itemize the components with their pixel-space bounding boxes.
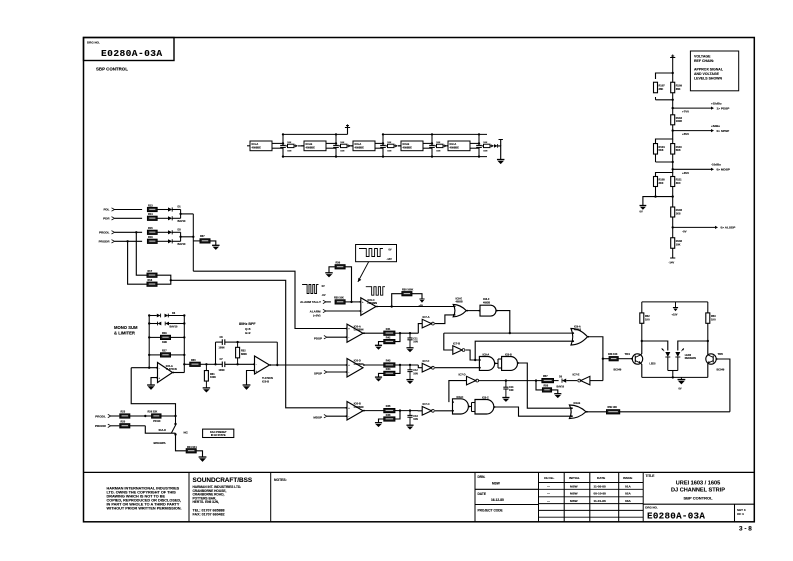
resistor R13 10K bbox=[147, 207, 157, 211]
wire BPF input node up bbox=[206, 363, 215, 365]
node branch PRODL bbox=[135, 231, 137, 233]
output diode end of chain bbox=[493, 145, 495, 147]
comparator IC6-D LM339N bbox=[347, 359, 363, 378]
drawing number box top-left bbox=[84, 38, 175, 61]
svg-text:11-01-86: 11-01-86 bbox=[594, 499, 606, 503]
resistor R38 100K pull-up bbox=[392, 294, 402, 307]
wire monostable stage pins bbox=[375, 142, 383, 144]
wire non-inverting input IC5-B to ground bbox=[247, 371, 255, 386]
svg-text:MSW: MSW bbox=[492, 481, 500, 485]
LED5 bbox=[665, 352, 670, 357]
resistor R26 22K bbox=[145, 415, 151, 417]
IC5-A pin nodes bbox=[156, 367, 158, 369]
svg-text:& LIMITER: & LIMITER bbox=[114, 331, 135, 336]
+15V supply feed at monostable rail bbox=[347, 128, 349, 135]
wire limiter control from IC5-A input bbox=[131, 368, 175, 416]
wire OR1 output to TR4 drive bbox=[588, 337, 603, 381]
timing resistor R62 10K bbox=[341, 144, 348, 147]
wire latch top interconnect bbox=[466, 310, 480, 312]
supply stub end of chain bbox=[500, 140, 502, 146]
diode D7 pair reversed bbox=[149, 323, 157, 325]
wire LED anode right bbox=[678, 341, 708, 351]
svg-text:S1A-D: S1A-D bbox=[159, 429, 167, 432]
resistor R46 shunt bbox=[384, 417, 395, 421]
monostable chain bottom rail bbox=[283, 156, 487, 158]
svg-text:05-10-85: 05-10-85 bbox=[594, 492, 607, 496]
svg-text:LM339N: LM339N bbox=[354, 406, 364, 409]
resistor R53 1K0 bbox=[707, 302, 709, 313]
resistor R15 10K bbox=[147, 230, 157, 234]
resistor R110 5K6 bbox=[672, 139, 674, 144]
svg-text:IN HI STATE: IN HI STATE bbox=[211, 433, 226, 437]
ground R44 bbox=[375, 376, 382, 378]
timing resistor R63 10K bbox=[388, 144, 395, 147]
op-amp IC5-A TL072CN bbox=[158, 363, 173, 383]
svg-text:+5V0: +5V0 bbox=[682, 132, 689, 136]
resistor R25 10K bbox=[120, 424, 130, 428]
svg-text:FAX: 01707 660482: FAX: 01707 660482 bbox=[193, 513, 225, 517]
comparator IC6-B LM339N bbox=[347, 402, 363, 421]
svg-text:4098BE: 4098BE bbox=[355, 146, 365, 150]
svg-text:IC7-E: IC7-E bbox=[573, 373, 580, 377]
gate IC8-E nand latch top bbox=[453, 305, 466, 317]
svg-text:R25: R25 bbox=[121, 420, 126, 423]
inverter IC7-F bbox=[418, 365, 422, 368]
resistor R52 1K0 bbox=[641, 323, 643, 341]
svg-text:R28: R28 bbox=[162, 332, 167, 335]
ground R58 bbox=[554, 393, 561, 395]
node tap PDSP bbox=[672, 99, 674, 101]
svg-text:BC549: BC549 bbox=[614, 369, 622, 372]
diode D5 BAV10 bbox=[562, 379, 566, 383]
svg-text:TR4: TR4 bbox=[625, 352, 631, 356]
wire TR5 base loop bbox=[716, 359, 730, 412]
svg-text:DATE: DATE bbox=[478, 492, 486, 496]
ground R37 bbox=[212, 244, 219, 246]
wire junction to ground stub bbox=[656, 196, 673, 198]
svg-text:APPROX SIGNAL: APPROX SIGNAL bbox=[694, 68, 724, 72]
svg-text:IC7-C: IC7-C bbox=[423, 402, 430, 406]
ground R42 bbox=[375, 344, 382, 346]
svg-text:4098BE: 4098BE bbox=[450, 146, 460, 150]
svg-text:3 - 8: 3 - 8 bbox=[739, 526, 752, 533]
svg-text:MDSP: MDSP bbox=[313, 416, 322, 420]
resistor R59 10K bbox=[607, 410, 620, 414]
inverter IC7-A bbox=[418, 324, 422, 334]
resistor R24 1K1 bbox=[186, 449, 196, 453]
svg-text:LEVELS SHOWN: LEVELS SHOWN bbox=[694, 76, 722, 80]
svg-text:BC549: BC549 bbox=[717, 369, 725, 372]
svg-text:+5V: +5V bbox=[419, 304, 424, 307]
wire LED cathodes bbox=[667, 358, 669, 371]
svg-text:PDL: PDL bbox=[104, 208, 110, 212]
svg-text:R37: R37 bbox=[200, 235, 205, 238]
wire latch bottom cross coupling bbox=[468, 406, 471, 408]
svg-text:R44: R44 bbox=[386, 368, 391, 371]
svg-text:+15dBu: +15dBu bbox=[711, 102, 722, 106]
wire branch loop R105 bbox=[656, 169, 673, 176]
resistor R58 100K bbox=[536, 381, 542, 390]
svg-text:+7V0: +7V0 bbox=[682, 110, 689, 114]
+5V supply R38 bbox=[419, 298, 424, 300]
timing capacitor C32 10N bbox=[335, 134, 337, 145]
wire BPF top row bbox=[238, 341, 278, 343]
inverter IC7-D bbox=[467, 376, 476, 385]
svg-text:R48 10K: R48 10K bbox=[608, 353, 618, 356]
svg-text:-10dBu: -10dBu bbox=[711, 163, 721, 167]
wire TR5 emitter bbox=[707, 363, 709, 377]
inverter IC7-E bbox=[581, 376, 590, 385]
svg-text:100N: 100N bbox=[219, 347, 225, 350]
svg-text:PRODL: PRODL bbox=[95, 414, 106, 418]
svg-text:10K: 10K bbox=[483, 142, 487, 144]
svg-text:TL072CN: TL072CN bbox=[166, 368, 177, 371]
top rail LED supply bbox=[642, 301, 708, 303]
wire diode OR bus rows 1-2 bbox=[180, 210, 182, 219]
svg-text:UREI 1603 / 1605: UREI 1603 / 1605 bbox=[676, 481, 720, 487]
svg-text:LM339N: LM339N bbox=[354, 329, 364, 332]
svg-text:10N: 10N bbox=[509, 389, 514, 392]
resistor R14 10K bbox=[147, 216, 157, 220]
svg-text:80Hz BPF: 80Hz BPF bbox=[239, 322, 256, 326]
wire monostable stage pins bbox=[423, 142, 432, 144]
wire latch output bus to OR1 bbox=[444, 332, 574, 334]
svg-text:0V: 0V bbox=[679, 388, 682, 391]
resistor R45 series bbox=[384, 409, 395, 413]
wire latch top output bbox=[496, 311, 510, 334]
wire detect line to IC6-B input bbox=[171, 280, 347, 408]
wire TR4 collector bbox=[641, 341, 642, 355]
svg-text:0> ALSDP: 0> ALSDP bbox=[721, 226, 736, 230]
svg-text:R14: R14 bbox=[148, 213, 153, 216]
ground LED circuit bbox=[680, 377, 682, 379]
TR5 base node bbox=[716, 358, 718, 360]
ground R31 bbox=[203, 387, 210, 389]
wire IC7-C output to IC8-D bbox=[435, 410, 453, 412]
svg-text:E0280A-03A: E0280A-03A bbox=[647, 510, 705, 521]
resistor R27 10K feedback bbox=[149, 354, 160, 356]
svg-text:-: - bbox=[256, 364, 257, 367]
resistor R42 shunt bbox=[384, 340, 395, 344]
svg-text:E0280A-03A: E0280A-03A bbox=[101, 48, 163, 59]
svg-text:IC2-A: IC2-A bbox=[450, 142, 457, 146]
svg-text:-0V: -0V bbox=[682, 229, 687, 233]
wire monostable stage pins bbox=[470, 142, 479, 144]
wire tap to MDSP bbox=[673, 168, 711, 170]
svg-text:R15: R15 bbox=[148, 227, 153, 230]
wire peak-detect node vertical bbox=[192, 214, 194, 271]
timing capacitor C33 10N bbox=[382, 134, 384, 145]
svg-text:10K: 10K bbox=[387, 142, 391, 144]
monostable IC3-A bbox=[353, 141, 375, 151]
wire switch to R24 bbox=[176, 437, 186, 451]
svg-text:R17: R17 bbox=[148, 270, 153, 273]
revision table bbox=[539, 482, 644, 484]
wire IC5-A output to rail bbox=[173, 372, 185, 374]
wire R44 to node bbox=[395, 365, 400, 373]
latch mid pin nodes bbox=[479, 359, 481, 361]
inverter IC7-C bbox=[418, 410, 422, 412]
resistor R111 3K0 bbox=[672, 173, 674, 177]
ground C14 bbox=[502, 397, 509, 399]
resistor R43 series bbox=[384, 363, 395, 367]
node branch PRODR bbox=[126, 240, 128, 242]
svg-text:BAV10: BAV10 bbox=[178, 220, 186, 223]
or gate IC9-A bbox=[571, 329, 588, 346]
resistor R41 series bbox=[384, 331, 395, 335]
svg-text:PRODL: PRODL bbox=[99, 231, 110, 235]
svg-text:HERTS. EN6 3JN,: HERTS. EN6 3JN, bbox=[193, 500, 220, 504]
feedback rail right bbox=[183, 316, 185, 373]
svg-text:R36: R36 bbox=[336, 261, 341, 264]
svg-text:10K: 10K bbox=[436, 142, 440, 144]
IC5-B pin nodes bbox=[253, 363, 255, 365]
svg-text:IC8-A: IC8-A bbox=[483, 352, 490, 356]
svg-text:4098BE: 4098BE bbox=[306, 146, 316, 150]
svg-text:IC7-B: IC7-B bbox=[453, 342, 460, 346]
wire BPF feedback bbox=[276, 342, 278, 365]
wire monostable stage pins bbox=[326, 142, 336, 144]
svg-text:-14V: -14V bbox=[669, 261, 675, 265]
svg-text:10N: 10N bbox=[436, 150, 440, 152]
wire IC7-A output to latch bbox=[435, 315, 456, 324]
ground IC5-B bbox=[243, 384, 251, 386]
wire IC6-C output bbox=[376, 306, 456, 308]
wire monostable stage pins bbox=[272, 142, 283, 144]
resistor R104 5K6 bbox=[654, 144, 658, 155]
svg-text:R41: R41 bbox=[386, 328, 391, 331]
timing capacitor C34 10N bbox=[431, 134, 433, 145]
wire input PRODR bbox=[115, 240, 143, 242]
svg-text:5K6: 5K6 bbox=[676, 148, 681, 152]
+15V supply top of chain bbox=[670, 57, 675, 59]
wire monostable interconnects bbox=[298, 145, 304, 147]
wire TR5 collector bbox=[707, 341, 709, 355]
svg-text:ISSUE: ISSUE bbox=[623, 476, 632, 480]
wire to inverter IC7-B bbox=[444, 333, 453, 350]
svg-text:LM339N: LM339N bbox=[368, 302, 378, 305]
svg-text:DRN.: DRN. bbox=[478, 475, 486, 479]
svg-text:IC8-C: IC8-C bbox=[482, 396, 489, 400]
node tap SPSP bbox=[672, 129, 674, 131]
svg-text:10K: 10K bbox=[340, 142, 344, 144]
svg-text:1K0: 1K0 bbox=[711, 319, 716, 322]
node IC6-A filter bbox=[399, 332, 401, 334]
node chain top junction bbox=[672, 72, 674, 74]
svg-text:SOUNDCRAFT/BSS: SOUNDCRAFT/BSS bbox=[193, 477, 253, 484]
svg-text:R43: R43 bbox=[386, 360, 391, 363]
svg-text:-: - bbox=[362, 310, 363, 313]
svg-text:3K0: 3K0 bbox=[676, 181, 681, 185]
wire input PRODL bbox=[115, 231, 143, 233]
svg-text:100N: 100N bbox=[219, 369, 225, 372]
svg-text:R45: R45 bbox=[386, 405, 391, 408]
svg-text:R16: R16 bbox=[148, 236, 153, 239]
wire BPF output to IC6-D input bbox=[277, 364, 347, 366]
TR4 base node bbox=[631, 358, 633, 360]
svg-text:R58: R58 bbox=[544, 385, 549, 388]
svg-text:SBP CONTROL: SBP CONTROL bbox=[683, 496, 713, 501]
svg-text:BPA/HPA: BPA/HPA bbox=[154, 441, 166, 445]
capacitor C13 filter bbox=[409, 411, 411, 416]
ground R36 bbox=[325, 272, 332, 274]
resistor R28 1M0 feedback bbox=[149, 336, 160, 338]
wire input PDL bbox=[115, 209, 143, 211]
node tap ALSDP bbox=[672, 226, 674, 228]
svg-text:(+5V): (+5V) bbox=[313, 313, 320, 317]
wire detect line to IC6-A input bbox=[193, 271, 347, 328]
gate IC8-F nand latch top bbox=[480, 305, 496, 316]
svg-text:R59 10K: R59 10K bbox=[608, 406, 618, 409]
drawn-by cell bbox=[475, 488, 539, 490]
wire branch PRODL to lower resistor bbox=[136, 232, 147, 275]
svg-text:IC3-B: IC3-B bbox=[403, 142, 410, 146]
resistor R105 3K0 bbox=[654, 177, 658, 187]
gate IC8-D nand latch bottom bbox=[453, 399, 469, 414]
wire branch PRODR to lower resistor bbox=[128, 241, 147, 284]
svg-text:R26 22K: R26 22K bbox=[148, 411, 158, 414]
svg-text:R23: R23 bbox=[121, 411, 126, 414]
gate IC8-B nand latch mid bbox=[502, 357, 518, 371]
svg-text:4093B: 4093B bbox=[456, 301, 463, 304]
diode D2 bbox=[168, 216, 172, 220]
wire non-inverting input IC5-A to ground bbox=[151, 378, 158, 385]
svg-text:4071B: 4071B bbox=[574, 329, 581, 332]
svg-text:MSW: MSW bbox=[570, 499, 578, 503]
ground chain mid bbox=[640, 205, 647, 207]
wire IC8-C output to OR2 bbox=[494, 407, 573, 416]
svg-text:R30: R30 bbox=[191, 359, 196, 362]
svg-text:WITHOUT PRIOR WRITTEN PERMISSI: WITHOUT PRIOR WRITTEN PERMISSION. bbox=[107, 507, 182, 511]
resistor R106 1K8 bbox=[672, 197, 674, 208]
diode D3 bbox=[168, 230, 172, 234]
svg-text:0> SPSP: 0> SPSP bbox=[717, 129, 730, 133]
wire IC6-A output bbox=[363, 332, 384, 334]
or gate IC9-B bbox=[569, 405, 586, 419]
svg-text:AND VOLTAGE: AND VOLTAGE bbox=[694, 72, 720, 76]
svg-text:100K: 100K bbox=[210, 376, 216, 379]
node R30 output bbox=[205, 363, 207, 365]
+15V supply LED rail bbox=[675, 302, 677, 308]
svg-text:DRG NO.: DRG NO. bbox=[645, 506, 658, 510]
svg-text:R35 10K: R35 10K bbox=[334, 297, 344, 300]
svg-text:LM339N: LM339N bbox=[354, 363, 364, 366]
svg-text:-: - bbox=[159, 367, 160, 370]
monostable chain top rail bbox=[283, 133, 348, 135]
node tap MDSP bbox=[672, 161, 674, 163]
title block outline bbox=[84, 471, 755, 473]
svg-text:IC7-D: IC7-D bbox=[459, 373, 466, 377]
box DAC PRESET note bbox=[203, 429, 234, 437]
svg-text:0V: 0V bbox=[640, 210, 643, 214]
svg-text:-14V: -14V bbox=[387, 258, 393, 261]
svg-text:IC5-A: IC5-A bbox=[166, 364, 173, 368]
inverter IC7-B bbox=[453, 346, 462, 355]
wire TR4 emitter bbox=[641, 363, 642, 377]
-14V supply bottom of chain bbox=[672, 248, 674, 258]
wire IC6-D output bbox=[363, 364, 384, 366]
svg-text:R24 1K1: R24 1K1 bbox=[187, 446, 197, 449]
timing resistor R61 10K bbox=[288, 144, 295, 147]
node IC6-B filter bbox=[399, 409, 401, 411]
svg-text:LED5: LED5 bbox=[649, 362, 656, 365]
border frame bbox=[84, 38, 755, 522]
monostable IC3-B bbox=[401, 141, 423, 151]
voltage ref chain note box bbox=[690, 51, 738, 91]
wire IC6-B output bbox=[363, 410, 384, 412]
svg-text:R46: R46 bbox=[386, 414, 391, 417]
svg-text:03A: 03A bbox=[625, 499, 631, 503]
svg-text:R38 100K: R38 100K bbox=[402, 288, 413, 291]
svg-text:4098BE: 4098BE bbox=[252, 146, 262, 150]
svg-text:R18: R18 bbox=[148, 279, 153, 282]
diode D4 bbox=[168, 239, 172, 243]
svg-text:1M0: 1M0 bbox=[162, 341, 167, 344]
svg-text:R42: R42 bbox=[386, 336, 391, 339]
svg-text:TITLE: TITLE bbox=[646, 474, 655, 478]
svg-text:NOTES:: NOTES: bbox=[274, 478, 287, 482]
svg-text:10N: 10N bbox=[287, 150, 291, 152]
svg-text:1K0: 1K0 bbox=[645, 319, 650, 322]
svg-text:INITIAL: INITIAL bbox=[569, 476, 580, 480]
diode D6b bbox=[165, 314, 169, 318]
svg-text:10N: 10N bbox=[483, 150, 487, 152]
svg-text:5K6: 5K6 bbox=[659, 148, 664, 152]
svg-text:---: --- bbox=[547, 485, 550, 489]
svg-text:CH No.: CH No. bbox=[544, 476, 554, 480]
svg-text:G=2: G=2 bbox=[245, 331, 251, 335]
ground end of chain bbox=[497, 159, 504, 161]
resistor R57 100K bbox=[536, 380, 542, 382]
svg-text:4098BE: 4098BE bbox=[403, 146, 413, 150]
svg-text:VOLTAGE: VOLTAGE bbox=[694, 55, 711, 59]
capacitor C14 bbox=[505, 381, 507, 388]
svg-text:10N: 10N bbox=[387, 150, 391, 152]
wire IC7-D output line bbox=[479, 380, 536, 382]
ground R46 bbox=[375, 422, 382, 424]
svg-text:RED/GRN: RED/GRN bbox=[685, 357, 696, 360]
resistor R103 100R bbox=[672, 108, 674, 115]
bottom rail LED circuit bbox=[642, 376, 708, 378]
svg-text:10K: 10K bbox=[676, 242, 681, 246]
svg-text:-: - bbox=[348, 371, 349, 374]
svg-text:3K0: 3K0 bbox=[659, 181, 664, 185]
svg-text:16-12-85: 16-12-85 bbox=[491, 498, 504, 502]
wire lower resistor merge bbox=[157, 275, 171, 284]
svg-text:0> MDSP: 0> MDSP bbox=[717, 168, 730, 172]
callout arrow from waveform box bbox=[358, 262, 369, 282]
waveform note box bbox=[356, 245, 397, 262]
wire branch loop R104 bbox=[656, 131, 673, 143]
wire LED anode left bbox=[642, 341, 668, 351]
svg-text:01A: 01A bbox=[625, 485, 631, 489]
wire IC5-B output bbox=[270, 364, 278, 366]
resistor R37 1K0 pulldown bbox=[193, 240, 200, 242]
wire IC7-B output to IC8-A bbox=[466, 350, 480, 360]
resistor R31 100K shunt bbox=[205, 364, 207, 370]
svg-text:BAV10: BAV10 bbox=[557, 385, 565, 388]
resistor R44 shunt bbox=[384, 371, 395, 375]
node alarm threshold bbox=[350, 301, 352, 303]
svg-text:MSW: MSW bbox=[570, 492, 578, 496]
resistor R109 36K bbox=[672, 73, 674, 82]
svg-text:1> PDSP: 1> PDSP bbox=[717, 106, 730, 110]
svg-text:36K: 36K bbox=[676, 87, 681, 91]
diode D6 bbox=[149, 315, 157, 317]
gate IC8-A nand latch mid bbox=[479, 357, 494, 371]
wire OR2 output bbox=[586, 411, 607, 413]
resistor R36 10K bbox=[329, 267, 335, 273]
